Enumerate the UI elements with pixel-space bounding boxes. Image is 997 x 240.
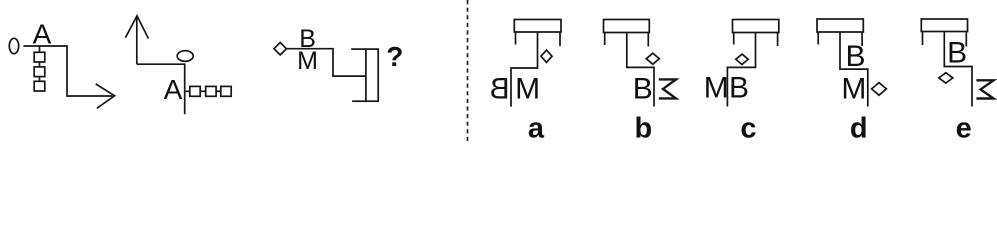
svg-text:B: B [845, 40, 865, 73]
option b stem wire [627, 33, 654, 107]
option b left leg [604, 33, 606, 46]
svg-text:d: d [850, 113, 868, 145]
figure2 ellipse node [177, 51, 193, 62]
figure2 chain square 2 [206, 86, 216, 96]
figure1 ellipse node [9, 38, 18, 53]
option a table bar [514, 20, 561, 33]
option d diamond [872, 83, 887, 96]
figure3 wire [286, 49, 366, 76]
svg-text:a: a [528, 113, 545, 145]
svg-text:B: B [490, 73, 510, 106]
option d right leg [861, 32, 863, 46]
option e right leg [965, 32, 967, 47]
figure2 chain square 1 [190, 86, 200, 96]
option c diamond [736, 54, 748, 64]
svg-text:b: b [635, 113, 653, 145]
svg-text:M: M [297, 47, 318, 75]
figure2 up arrowhead [125, 16, 148, 39]
figure1 chain link [39, 77, 41, 82]
option e rotated M glyph [976, 80, 993, 98]
svg-text:A: A [33, 19, 52, 50]
option c left leg [733, 33, 735, 45]
svg-text:B: B [633, 73, 653, 106]
svg-text:?: ? [386, 41, 403, 72]
option d stem wire [840, 32, 868, 107]
option b diamond [646, 53, 659, 64]
option a left leg [515, 32, 517, 45]
figure2 chain link [200, 90, 206, 92]
option b right leg [647, 33, 649, 47]
figure1 chain square 3 [34, 81, 45, 91]
svg-text:c: c [740, 113, 756, 145]
figure3 table bottom leg [352, 100, 366, 102]
figure3 diamond node [274, 43, 286, 55]
option c table bar [733, 20, 779, 33]
option e left leg [922, 32, 924, 46]
svg-text:M: M [704, 72, 729, 105]
option c stem wire [727, 33, 755, 107]
figure2 arrow shaft [136, 17, 138, 65]
figure1 chain connector [39, 46, 41, 52]
option b rotated M glyph [659, 79, 676, 98]
figure2 chain connector [185, 90, 190, 92]
option e diamond [939, 73, 953, 83]
option d left leg [817, 32, 819, 45]
svg-text:M: M [841, 73, 866, 106]
option a stem wire [511, 32, 538, 107]
svg-text:A: A [164, 74, 183, 105]
figure3 table bar [366, 49, 378, 101]
figure2 chain square 3 [221, 86, 231, 96]
figure1 chain square 2 [34, 67, 45, 77]
option a diamond [541, 50, 552, 62]
figure2 chain link [216, 90, 221, 92]
option d table bar [817, 19, 863, 32]
option c right leg [777, 33, 779, 47]
figure1 top wire [24, 46, 113, 96]
option e stem wire [944, 32, 972, 107]
option b table bar [604, 20, 650, 33]
svg-text:B: B [947, 36, 967, 69]
figure2 wire [137, 64, 185, 114]
figure1 chain link [39, 62, 41, 67]
figure3 table top leg [351, 48, 366, 50]
separator dashed line [467, 0, 469, 144]
figure1 arrowhead [96, 84, 115, 108]
svg-text:M: M [515, 73, 540, 106]
svg-text:e: e [956, 113, 972, 145]
option e table bar [921, 19, 967, 32]
figure1 chain square 1 [34, 52, 45, 62]
option a right leg [559, 32, 561, 46]
svg-text:B: B [729, 72, 749, 105]
